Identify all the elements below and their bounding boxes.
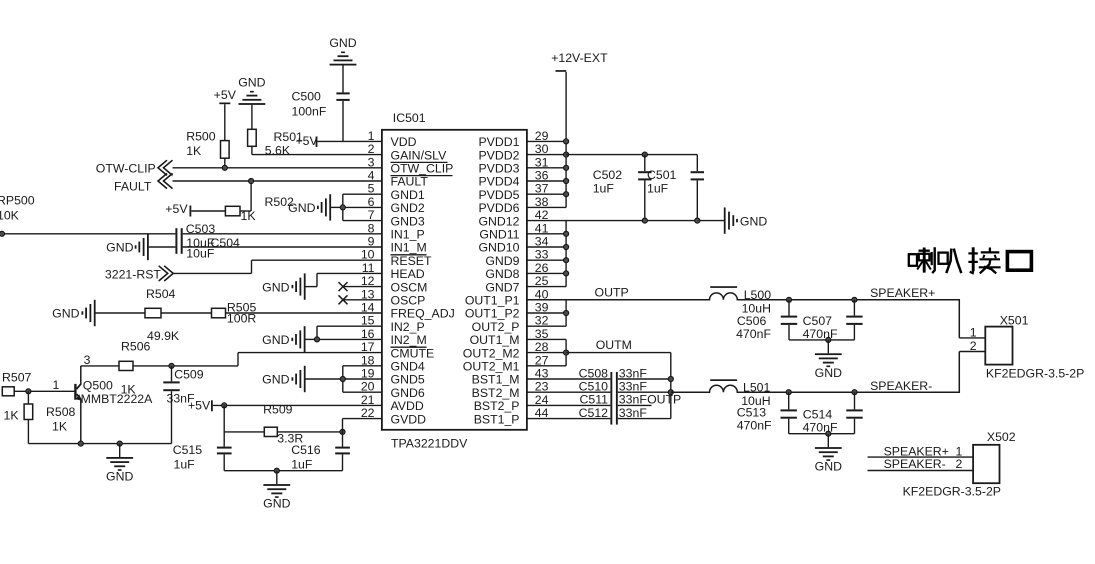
pin 22 GVDD label xyxy=(361,406,426,426)
svg-text:GND: GND xyxy=(262,333,289,347)
junction bus/pins 29,30,31,36,37 xyxy=(564,139,569,197)
svg-text:1uF: 1uF xyxy=(291,457,313,471)
svg-text:1K: 1K xyxy=(186,144,202,158)
junction bracket/pin 39 xyxy=(564,310,569,315)
capacitor C514 470nF xyxy=(781,392,838,434)
capacitor C503 10uF xyxy=(175,222,240,260)
svg-text:GND8: GND8 xyxy=(485,267,519,281)
wire FAULT to pin 4 xyxy=(173,180,382,182)
pin 12 OSCM label xyxy=(361,274,428,294)
pin 10 RESET label xyxy=(361,248,432,268)
junction collector/C509 xyxy=(169,363,174,368)
capacitor C506 label xyxy=(736,314,771,341)
svg-text:MMBT2222A: MMBT2222A xyxy=(81,392,154,406)
resistor 1K FAULT pull-up xyxy=(191,206,256,223)
svg-text:FAULT: FAULT xyxy=(391,175,429,189)
pin 5 GND1 label xyxy=(368,182,425,202)
svg-text:100nF: 100nF xyxy=(292,104,327,118)
junction rail/GND xyxy=(826,431,831,436)
wire R501 to pin 2 GAIN/SLV xyxy=(251,146,253,154)
svg-text:R501: R501 xyxy=(274,130,304,144)
ground GND at pins 15-16 xyxy=(262,326,317,352)
svg-text:GND5: GND5 xyxy=(391,373,425,387)
pin 8 IN1_P label xyxy=(368,221,425,241)
svg-text:+5V: +5V xyxy=(214,88,237,102)
pin 40 OUT1_P1 label xyxy=(465,287,549,307)
svg-text:IN2_P: IN2_P xyxy=(391,320,425,334)
svg-text:1K: 1K xyxy=(121,382,137,396)
capacitor C511 33nF xyxy=(527,393,647,407)
svg-text:470nF: 470nF xyxy=(737,419,772,433)
capacitor C508 33nF xyxy=(527,366,647,380)
svg-text:470nF: 470nF xyxy=(803,421,838,435)
op-amp IC501 TPA3221DDV body xyxy=(382,111,527,451)
pin 28 OUT2_M2 label xyxy=(463,340,549,360)
ground GND at pins 5-7 (R502) xyxy=(265,194,343,220)
pin 37 PVDD5 label xyxy=(478,182,548,202)
ground GND right of pin 42 xyxy=(724,207,768,233)
svg-text:R507: R507 xyxy=(2,371,32,385)
pin 42 GND12 label xyxy=(478,208,548,228)
svg-text:OSCP: OSCP xyxy=(391,294,426,308)
wire pin 40 OUT1_P1 OUTP to speaker xyxy=(527,293,959,338)
svg-text:C500: C500 xyxy=(292,90,322,104)
node 3221-RST xyxy=(105,266,173,282)
svg-text:C513: C513 xyxy=(737,406,767,420)
svg-text:C511: C511 xyxy=(580,393,609,407)
junction OUTP/cap2 xyxy=(852,297,857,302)
svg-text:BST1_M: BST1_M xyxy=(472,373,520,387)
junction rail/GND xyxy=(117,441,122,446)
capacitor BST plates xyxy=(610,372,617,425)
pin 13 OSCP label xyxy=(361,287,426,307)
junction C502/gnd wire xyxy=(642,218,647,223)
svg-text:100R: 100R xyxy=(227,312,257,326)
junction GND/pin 6 xyxy=(340,205,345,210)
wire OUTM down to L501 xyxy=(566,352,671,354)
svg-text:OUTP: OUTP xyxy=(647,393,681,407)
wire +5V to pin 21 AVDD xyxy=(213,404,382,406)
pin 1 X502 SPEAKER+ xyxy=(868,444,974,458)
junction gnd bracket pins 41,34,33,26 xyxy=(564,231,569,276)
resistor R509 3.3R xyxy=(224,402,342,445)
svg-text:GND9: GND9 xyxy=(485,254,519,268)
ground GND above C500 xyxy=(329,36,356,92)
wire bracket pins 35,28,27 xyxy=(527,339,566,365)
svg-text:BST1_P: BST1_P xyxy=(474,412,520,426)
svg-text:R506: R506 xyxy=(121,340,151,354)
junction OUTM/cap1 xyxy=(786,390,791,395)
capacitor C516 1uF xyxy=(291,443,350,471)
pin 41 GND11 label xyxy=(479,221,548,241)
svg-text:GND: GND xyxy=(262,280,289,294)
pin 19 GND5 label xyxy=(361,367,425,387)
junction AVDD branch xyxy=(222,403,227,408)
ground GND at C504 xyxy=(106,234,175,260)
svg-text:GND: GND xyxy=(262,373,289,387)
pin 2 X502 SPEAKER- xyxy=(868,457,974,471)
wire OTW-CLIP to pin 3 xyxy=(173,167,382,169)
svg-text:C508: C508 xyxy=(579,366,609,380)
pin 36 PVDD4 label xyxy=(478,169,548,189)
svg-text:GND: GND xyxy=(238,75,265,89)
wire collector to CMUTE xyxy=(81,365,238,367)
svg-text:33nF: 33nF xyxy=(619,406,648,420)
resistor R500 1K xyxy=(186,129,229,158)
pin 15 IN2_P label xyxy=(361,314,425,334)
junction GND/pin 16 xyxy=(314,337,319,342)
ground GND above R501 xyxy=(238,75,265,129)
svg-text:+5V: +5V xyxy=(165,202,188,216)
node +5V at FAULT pull-up xyxy=(165,202,191,217)
svg-text:FREQ_ADJ: FREQ_ADJ xyxy=(391,307,455,321)
svg-text:2: 2 xyxy=(955,457,962,471)
svg-text:VDD: VDD xyxy=(391,135,417,149)
svg-text:GND: GND xyxy=(740,214,767,228)
pin 3 OTW_CLIP label xyxy=(368,155,454,175)
capacitor C502 1uF xyxy=(593,155,652,221)
pin 24 BST2_P label xyxy=(474,393,549,413)
wire pull-up to FAULT net xyxy=(240,210,251,212)
svg-text:GAIN/SLV: GAIN/SLV xyxy=(391,148,448,162)
svg-text:GND3: GND3 xyxy=(391,214,425,228)
svg-text:IN2_M: IN2_M xyxy=(391,333,427,347)
pin 27 OUT2_M1 label xyxy=(463,353,549,373)
connector X502 KF2EDGR-3.5-2P xyxy=(903,430,1016,498)
svg-text:GVDD: GVDD xyxy=(391,412,427,426)
inductor L501 10uH xyxy=(710,379,770,408)
junction R500/OTW-CLIP xyxy=(222,165,227,170)
svg-text:C501: C501 xyxy=(647,168,677,182)
svg-text:OUT1_P1: OUT1_P1 xyxy=(465,294,520,308)
svg-text:10uF: 10uF xyxy=(186,246,215,260)
resistor R507 1K xyxy=(2,371,32,423)
wire GVDD branch xyxy=(342,419,344,447)
pin 30 PVDD2 label xyxy=(478,142,548,162)
wire input net to C503 xyxy=(0,231,175,236)
svg-text:PVDD2: PVDD2 xyxy=(478,148,519,162)
svg-text:KF2EDGR-3.5-2P: KF2EDGR-3.5-2P xyxy=(903,484,1001,498)
wire decoupling top xyxy=(566,154,697,156)
svg-text:CMUTE: CMUTE xyxy=(391,346,435,360)
svg-text:C506: C506 xyxy=(737,314,767,328)
svg-text:1uF: 1uF xyxy=(593,181,615,195)
svg-text:C516: C516 xyxy=(291,443,321,457)
wire AVDD branch down xyxy=(223,405,225,446)
svg-text:10K: 10K xyxy=(0,209,20,223)
junction rail/GND xyxy=(826,337,831,342)
svg-text:GND: GND xyxy=(329,36,356,50)
wire OUTM to speaker xyxy=(671,352,960,393)
svg-text:IC501: IC501 xyxy=(393,111,426,125)
no-connect X pin 12 OSCM xyxy=(339,282,382,291)
svg-text:470nF: 470nF xyxy=(803,327,838,341)
capacitor C515 1uF xyxy=(173,443,232,471)
wire C507 bottom rail xyxy=(789,339,854,341)
capacitor C507 470nF xyxy=(781,300,838,341)
capacitor C501 1uF xyxy=(647,155,704,221)
junction base/R508 xyxy=(26,389,31,394)
svg-text:2: 2 xyxy=(970,339,977,353)
svg-text:OUT2_P: OUT2_P xyxy=(472,320,520,334)
pin 29 PVDD1 label xyxy=(478,129,548,149)
svg-text:R509: R509 xyxy=(263,402,293,416)
svg-text:C507: C507 xyxy=(803,314,833,328)
pin 2 GAIN/SLV label xyxy=(368,142,448,162)
resistor R501 5.6K xyxy=(248,129,303,157)
svg-text:GND7: GND7 xyxy=(485,280,519,294)
pin 39 OUT1_P2 label xyxy=(465,301,549,321)
wire GND bracket pins 18,19,20 xyxy=(343,366,382,392)
node +5V at pin 1 VDD xyxy=(296,134,319,148)
svg-text:Q500: Q500 xyxy=(83,378,113,392)
svg-text:R508: R508 xyxy=(46,405,76,419)
junction rail/GND xyxy=(274,468,279,473)
pin 4 FAULT label xyxy=(368,169,429,189)
svg-text:PVDD4: PVDD4 xyxy=(478,175,519,189)
svg-text:GND11: GND11 xyxy=(479,228,519,242)
pin 44 BST1_P label xyxy=(474,406,549,426)
svg-text:1K: 1K xyxy=(4,409,20,423)
svg-text:GND: GND xyxy=(815,366,842,380)
wire C508 right xyxy=(618,378,671,380)
svg-text:C509: C509 xyxy=(174,367,204,381)
junction GND/pin 19 xyxy=(340,376,345,381)
capacitor right of C507 xyxy=(846,300,862,340)
junction emitter/rail xyxy=(78,441,83,446)
wire R500 to OTW-CLIP net xyxy=(224,158,226,168)
pin 1 X501 xyxy=(959,326,985,340)
svg-text:1: 1 xyxy=(53,378,60,392)
capacitor C500 100nF xyxy=(292,90,350,142)
ground GND at FREQ_ADJ line xyxy=(52,300,95,326)
svg-text:GND4: GND4 xyxy=(391,360,425,374)
resistor R505 100R xyxy=(212,300,257,325)
resistor R508 1K xyxy=(24,391,75,443)
capacitor C509 33nF xyxy=(163,366,203,444)
wire GND bracket pins 15,16 xyxy=(317,326,382,339)
svg-text:OUT1_P2: OUT1_P2 xyxy=(465,307,520,321)
svg-text:HEAD: HEAD xyxy=(391,267,425,281)
svg-text:OTW_CLIP: OTW_CLIP xyxy=(391,162,454,176)
junction C508/OUTM xyxy=(668,376,673,381)
no-connect X pin 13 OSCP xyxy=(339,295,382,304)
wire C512 right xyxy=(618,418,671,420)
svg-text:1uF: 1uF xyxy=(647,181,669,195)
pin 9 IN1_M label xyxy=(368,235,427,255)
svg-text:SPEAKER+: SPEAKER+ xyxy=(870,286,935,300)
svg-text:1: 1 xyxy=(970,326,977,340)
svg-text:PVDD5: PVDD5 xyxy=(478,188,519,202)
svg-text:RESET: RESET xyxy=(391,254,432,268)
wire PVDD pin stubs 29,30,31,36,37,38 xyxy=(527,141,566,207)
resistor R504 49.9K xyxy=(145,287,180,343)
svg-text:IN1_P: IN1_P xyxy=(391,228,425,242)
svg-text:X502: X502 xyxy=(987,430,1016,444)
svg-text:C510: C510 xyxy=(579,380,609,394)
connector X501 KF2EDGR-3.5-2P xyxy=(985,313,1084,380)
svg-text:OUTP: OUTP xyxy=(595,286,629,300)
svg-text:X501: X501 xyxy=(1000,313,1029,327)
svg-text:FAULT: FAULT xyxy=(114,179,152,193)
wire C503 to pin 8 IN1_P xyxy=(183,233,382,235)
wire C514 bottom rail xyxy=(789,433,855,435)
pin 31 PVDD3 label xyxy=(478,155,548,175)
junction pull-up/FAULT xyxy=(249,178,254,183)
svg-text:C512: C512 xyxy=(579,406,609,420)
svg-text:BST2_M: BST2_M xyxy=(472,386,520,400)
svg-text:GND2: GND2 xyxy=(391,201,425,215)
svg-text:RP500: RP500 xyxy=(0,194,35,208)
svg-text:C504: C504 xyxy=(211,236,241,250)
ground GND below Q500 xyxy=(119,444,121,457)
wire C515-C516 bottom rail xyxy=(224,470,342,472)
wire C510 right xyxy=(618,391,671,393)
pin 26 GND8 label xyxy=(485,261,548,281)
svg-text:C514: C514 xyxy=(803,407,833,421)
svg-text:+5V: +5V xyxy=(188,399,211,413)
pin 17 CMUTE label xyxy=(361,340,434,360)
wire bracket pins 39,32 xyxy=(527,300,566,326)
svg-text:R504: R504 xyxy=(146,287,176,301)
svg-text:L501: L501 xyxy=(743,381,771,395)
wire GND to pin 14 FREQ_ADJ xyxy=(96,312,382,314)
pin 1 VDD label xyxy=(368,129,417,149)
svg-text:3: 3 xyxy=(84,353,91,367)
potentiometer RP500 10K label xyxy=(0,194,35,223)
svg-text:3221-RST: 3221-RST xyxy=(105,267,162,281)
svg-text:GND1: GND1 xyxy=(391,188,425,202)
svg-text:GND: GND xyxy=(106,241,133,255)
svg-text:+12V-EXT: +12V-EXT xyxy=(551,51,608,65)
node FAULT xyxy=(114,173,173,193)
svg-text:GND: GND xyxy=(815,460,842,474)
resistor R506 1K xyxy=(119,340,151,397)
svg-text:1uF: 1uF xyxy=(174,457,196,471)
svg-text:33nF: 33nF xyxy=(619,366,648,380)
svg-text:GND6: GND6 xyxy=(391,386,425,400)
node +12V-EXT xyxy=(551,51,608,72)
wire +12V-EXT bus xyxy=(565,72,567,208)
svg-text:49.9K: 49.9K xyxy=(147,329,180,343)
svg-text:C515: C515 xyxy=(173,443,203,457)
svg-text:IN1_M: IN1_M xyxy=(391,241,427,255)
svg-text:SPEAKER-: SPEAKER- xyxy=(870,379,932,393)
svg-text:1K: 1K xyxy=(52,420,68,434)
svg-text:470nF: 470nF xyxy=(736,327,771,341)
svg-text:5.6K: 5.6K xyxy=(265,144,291,158)
pin 43 BST1_M label xyxy=(472,367,549,387)
junction OUTM/cap2 xyxy=(852,390,857,395)
svg-text:OUT2_M2: OUT2_M2 xyxy=(463,346,520,360)
pin 33 GND9 label xyxy=(485,248,548,268)
svg-text:SPEAKER-: SPEAKER- xyxy=(884,457,946,471)
junction C510/OUTM xyxy=(668,390,673,395)
svg-text:R500: R500 xyxy=(186,129,216,143)
svg-text:C502: C502 xyxy=(593,168,623,182)
ground GND below C514 xyxy=(827,434,829,447)
wire +5V to pin 1 xyxy=(317,140,382,142)
pin 21 AVDD label xyxy=(361,393,424,413)
ground GND at pins 18-20 xyxy=(262,366,343,392)
svg-text:PVDD1: PVDD1 xyxy=(478,135,519,149)
pin 7 GND3 label xyxy=(368,208,425,228)
pin 18 GND4 label xyxy=(361,353,425,373)
capacitor C512 33nF xyxy=(527,406,647,420)
junction C501/gnd wire xyxy=(695,218,700,223)
capacitor C510 33nF xyxy=(527,380,647,394)
ground GND below C507 xyxy=(827,340,829,353)
pin 32 OUT2_P label xyxy=(472,314,549,334)
pin 20 GND6 label xyxy=(361,380,425,400)
svg-text:GND: GND xyxy=(52,307,79,321)
node +5V at AVDD xyxy=(188,399,213,413)
wire GND pin stubs 41,34,33,26,25 xyxy=(527,221,566,287)
node +5V above R500 xyxy=(214,88,237,141)
svg-text:PVDD6: PVDD6 xyxy=(478,201,519,215)
pin 6 GND2 label xyxy=(368,195,425,215)
wire emitter rail xyxy=(28,443,171,445)
pin 25 GND7 label xyxy=(485,274,548,294)
node OTW-CLIP xyxy=(96,160,173,175)
svg-text:OTW-CLIP: OTW-CLIP xyxy=(96,162,156,176)
pin 38 PVDD6 label xyxy=(478,195,548,215)
transistor Q500 MMBT2222A xyxy=(74,353,153,444)
junction bracket/pin 28 xyxy=(564,350,569,355)
svg-text:33nF: 33nF xyxy=(619,393,648,407)
svg-text:GND10: GND10 xyxy=(478,241,519,255)
pin 14 FREQ_ADJ label xyxy=(361,301,455,321)
junction top/C502 xyxy=(642,152,647,157)
pin 11 HEAD label xyxy=(362,261,425,281)
svg-text:TPA3221DDV: TPA3221DDV xyxy=(391,437,468,451)
wire 3221-RST to pin 10 RESET xyxy=(173,272,251,274)
svg-text:GND12: GND12 xyxy=(478,214,519,228)
pin 2 X501 xyxy=(959,339,985,353)
ground GND below C515/C516 xyxy=(276,471,278,484)
junction OUTP/cap1 xyxy=(786,297,791,302)
svg-text:GND: GND xyxy=(106,470,133,484)
wire C504 to pin 9 IN1_M xyxy=(183,246,382,248)
pin 34 GND10 label xyxy=(478,235,548,255)
svg-text:PVDD3: PVDD3 xyxy=(478,162,519,176)
svg-text:L500: L500 xyxy=(744,288,772,302)
inductor L500 10uH xyxy=(710,286,771,315)
svg-text:OUT1_M: OUT1_M xyxy=(470,333,520,347)
pin 23 BST2_M label xyxy=(472,380,549,400)
svg-text:33nF: 33nF xyxy=(619,380,648,394)
svg-text:GND: GND xyxy=(288,201,315,215)
svg-text:OUTM: OUTM xyxy=(596,338,632,352)
wire R507 to Q500 base xyxy=(14,378,74,392)
title 喇叭接口 (speaker interface) hand-drawn glyphs xyxy=(909,247,1032,273)
svg-text:AVDD: AVDD xyxy=(391,399,424,413)
pin 35 OUT1_M label xyxy=(470,327,549,347)
capacitor right of C514 xyxy=(846,392,862,434)
svg-text:OUT2_M1: OUT2_M1 xyxy=(463,360,520,374)
capacitor C513 label xyxy=(737,406,772,433)
ground GND at pin 11 HEAD xyxy=(262,273,382,299)
svg-text:OSCM: OSCM xyxy=(391,280,428,294)
wire C511 right to OUTP label xyxy=(618,393,681,407)
junction R509/GVDD branch xyxy=(340,429,345,434)
pin 16 IN2_M label xyxy=(361,327,427,347)
wire GND bracket pins 5,6,7 xyxy=(343,194,382,220)
wire pin 42 GND12 to ground xyxy=(527,220,724,222)
svg-text:GND: GND xyxy=(263,497,290,511)
svg-text:KF2EDGR-3.5-2P: KF2EDGR-3.5-2P xyxy=(986,367,1084,381)
svg-text:BST2_P: BST2_P xyxy=(474,399,520,413)
